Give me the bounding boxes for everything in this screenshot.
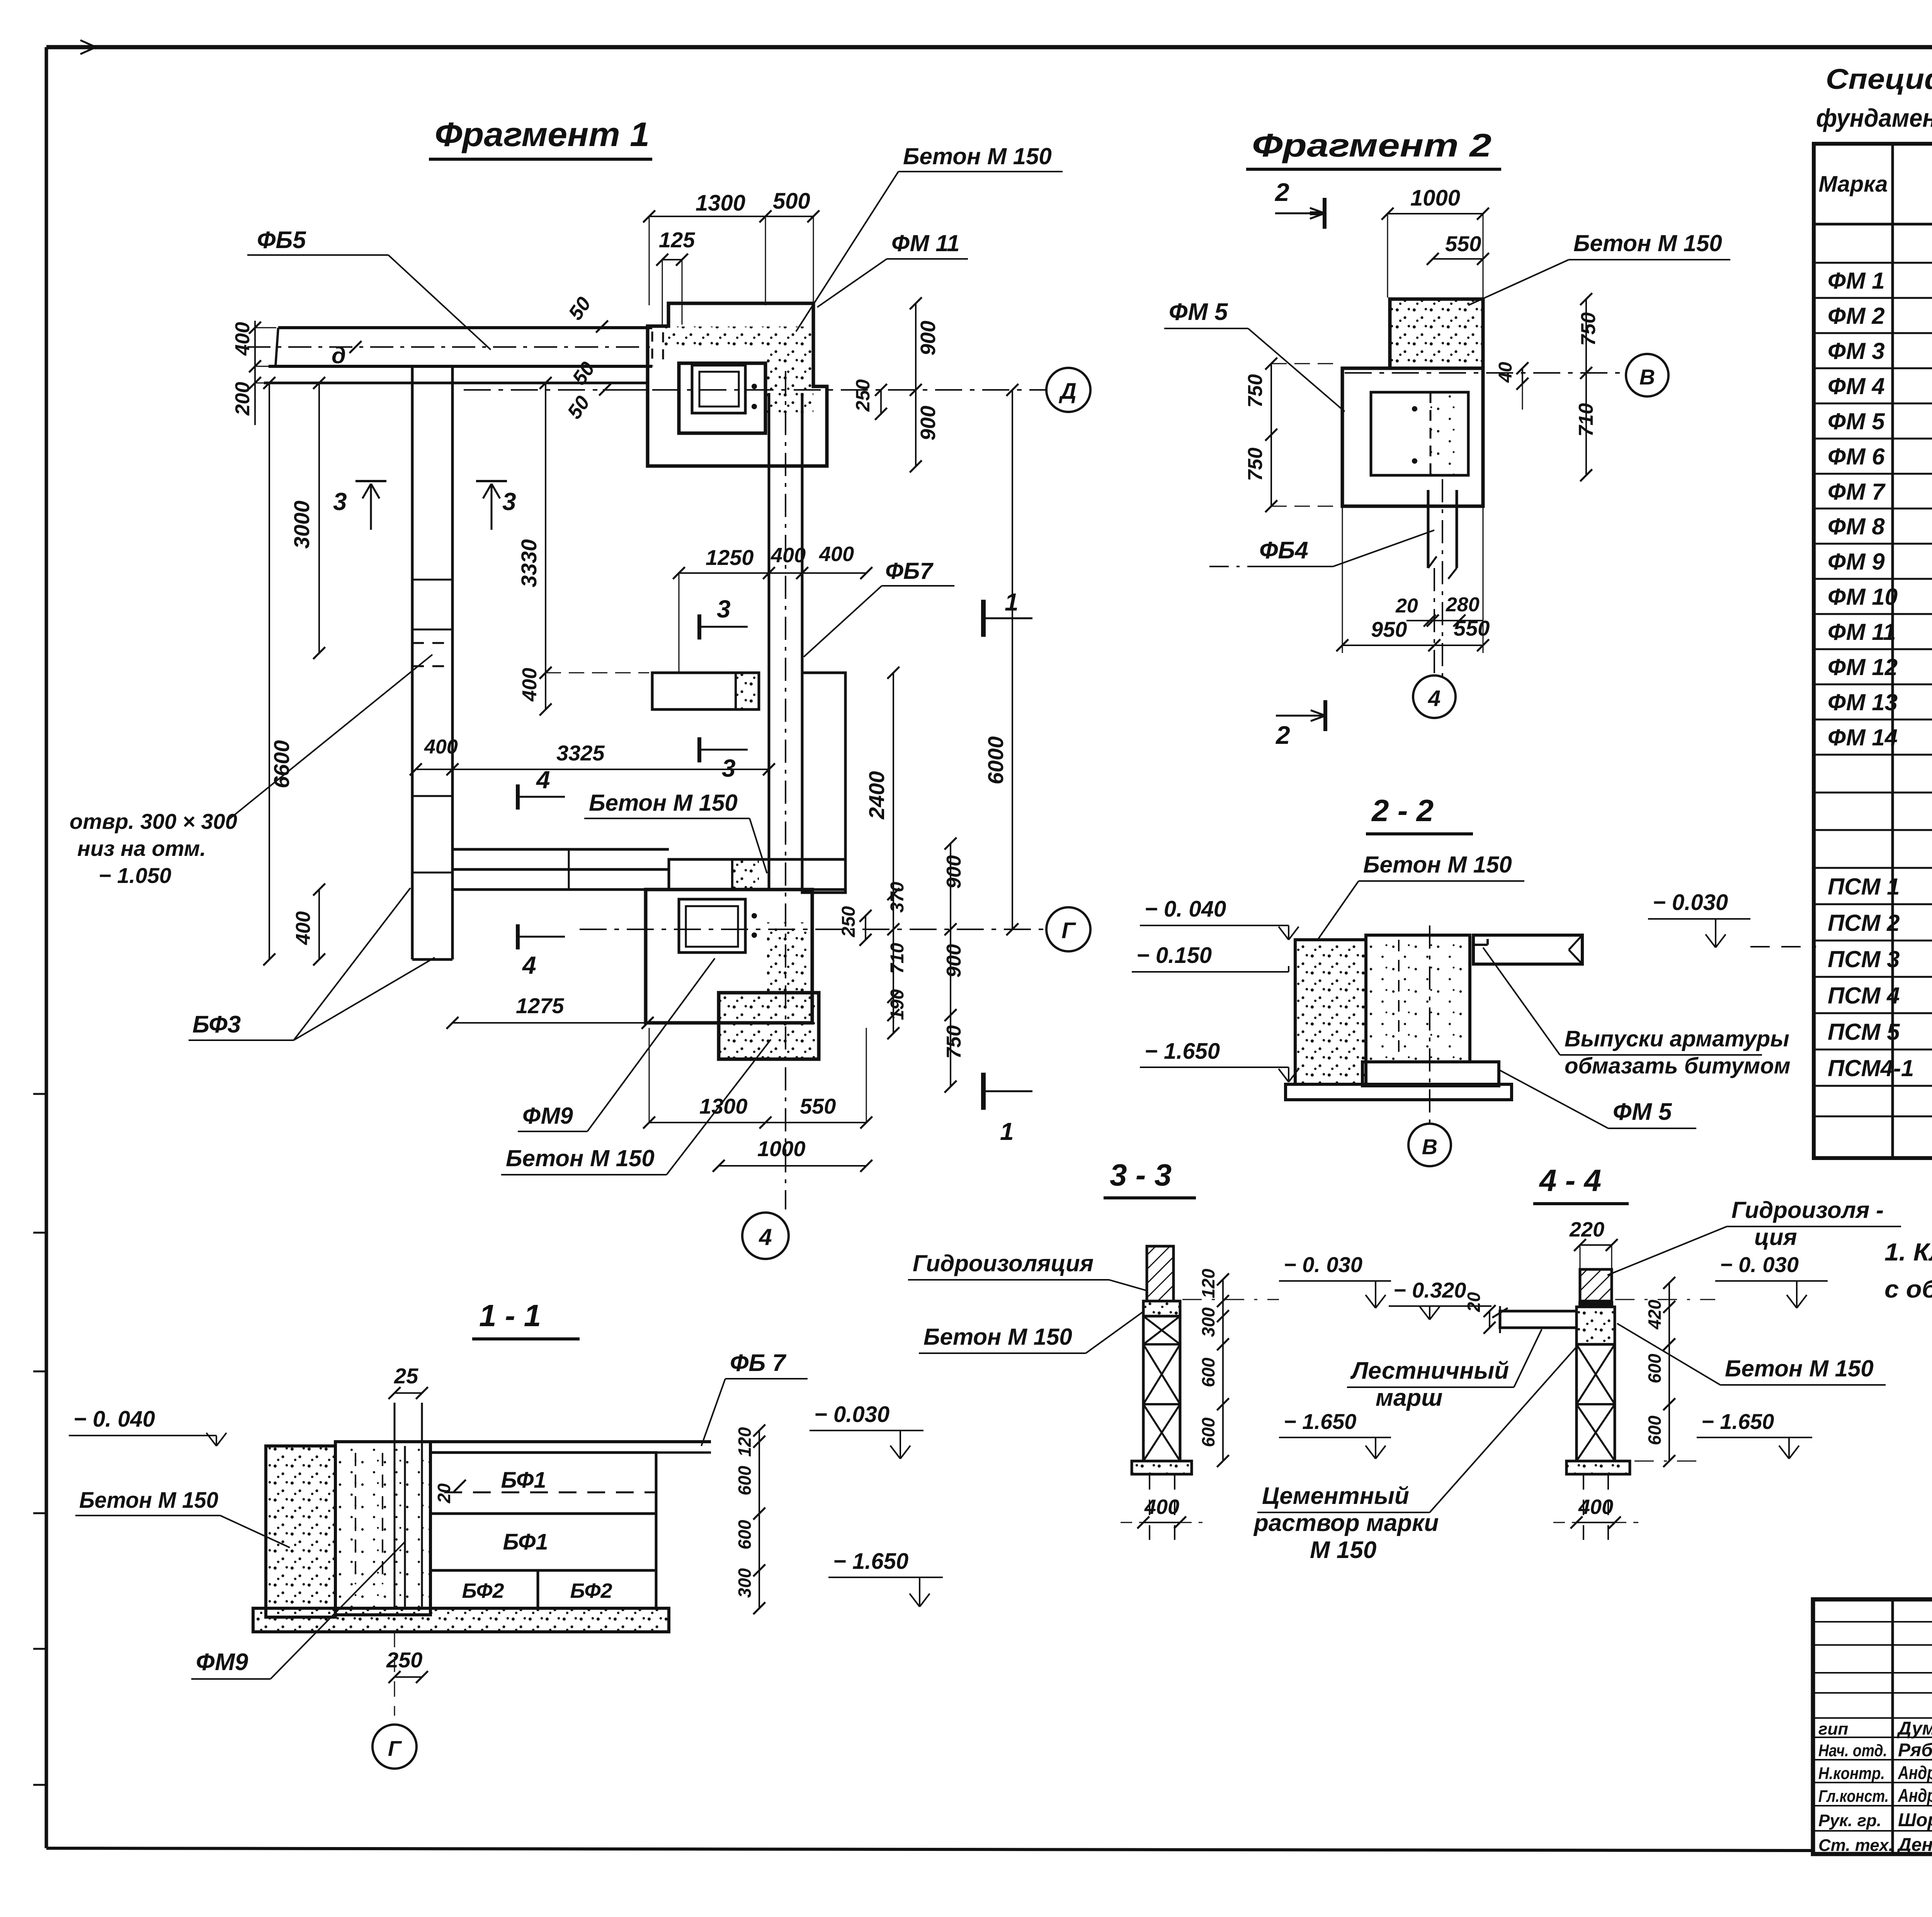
svg-text:220: 220 [1569, 1218, 1604, 1241]
3-3 dashed continuation [1150, 1474, 1175, 1540]
dim 1300/500 top [643, 189, 819, 305]
svg-text:900: 900 [943, 944, 965, 978]
label BF3 with leaders [189, 888, 435, 1040]
inner cell FM5 [1371, 392, 1468, 475]
label FB4 [1209, 530, 1434, 566]
spec table rows [1828, 228, 1932, 1151]
4-4 mortar block (dots) [1577, 1307, 1615, 1344]
svg-text:3: 3 [722, 754, 736, 782]
svg-text:низ на отм.: низ на отм. [77, 836, 206, 861]
dim 400 column bottom [292, 883, 325, 965]
svg-text:Выпуски арматуры: Выпуски арматуры [1565, 1026, 1789, 1051]
title section 2-2 [1366, 793, 1473, 834]
svg-text:ПСМ 3: ПСМ 3 [1828, 946, 1900, 972]
level -1.650 (2-2) [1140, 1039, 1299, 1082]
dim 1000 bottom [713, 1136, 872, 1172]
svg-text:400: 400 [424, 736, 458, 758]
svg-text:− 0. 040: − 0. 040 [73, 1407, 155, 1432]
svg-text:3: 3 [717, 595, 731, 623]
svg-text:Денисова: Денисова [1896, 1835, 1932, 1855]
svg-text:Г: Г [388, 1736, 402, 1761]
svg-text:1000: 1000 [757, 1136, 806, 1161]
label Beton M150 (3-3) [1086, 1311, 1145, 1353]
svg-text:300: 300 [735, 1568, 755, 1598]
right dims 750/40/710 (fragment 2) [1495, 293, 1600, 481]
svg-text:БФ1: БФ1 [501, 1468, 546, 1493]
level -1.650 (3-3) [1279, 1409, 1391, 1459]
axis circle 4 (fragment 2) [1413, 568, 1456, 718]
svg-text:1300: 1300 [699, 1094, 748, 1118]
svg-text:600: 600 [1198, 1357, 1218, 1387]
band toward FB7 with concrete cell [669, 859, 845, 890]
svg-text:1300: 1300 [696, 191, 745, 216]
section mark 2 top [1274, 178, 1325, 229]
3-3 mortar band (dots) [1143, 1301, 1180, 1316]
foundation FM5 outline [1342, 299, 1483, 506]
1-1 BF1 lower block [430, 1514, 656, 1570]
1-1 BF2 blocks [430, 1570, 656, 1608]
dim 1275 [446, 993, 653, 1029]
axis circle 4 (fragment 1) [742, 1213, 789, 1259]
svg-text:фундаментов, фундаментных бало: фундаментов, фундаментных балок, подпорн… [1816, 104, 1932, 132]
svg-text:3 - 3: 3 - 3 [1110, 1158, 1172, 1192]
label FM11 [817, 230, 968, 307]
svg-text:ФМ 10: ФМ 10 [1828, 584, 1898, 610]
dims 1300/550 bottom [643, 1028, 872, 1129]
svg-text:ФМ 8: ФМ 8 [1828, 514, 1885, 539]
level -0.030 (3-3) [1182, 1252, 1391, 1308]
svg-text:Фрагмент 1: Фрагмент 1 [435, 115, 650, 153]
svg-text:обмазать битумом: обмазать битумом [1565, 1053, 1791, 1078]
svg-text:Ст. тех.: Ст. тех. [1818, 1836, 1893, 1855]
1-1 top slab lines [335, 1442, 711, 1453]
svg-text:2: 2 [1275, 721, 1290, 749]
svg-text:марш: марш [1376, 1385, 1442, 1411]
svg-text:550: 550 [1454, 616, 1490, 640]
label FB7 [804, 558, 954, 657]
svg-text:400: 400 [770, 544, 806, 567]
svg-text:3325: 3325 [556, 741, 605, 765]
axis D [464, 368, 1090, 412]
svg-text:Гидроизоляция: Гидроизоляция [913, 1250, 1094, 1276]
svg-text:В: В [1639, 365, 1655, 389]
svg-text:д: д [332, 342, 346, 368]
section 2-2 base slab [1286, 1084, 1512, 1100]
svg-text:Г: Г [1061, 918, 1076, 943]
svg-text:280: 280 [1446, 594, 1480, 616]
beam FB4 below [1428, 479, 1457, 680]
axis G circle (1-1) [372, 1725, 417, 1769]
svg-text:БФ3: БФ3 [192, 1011, 241, 1038]
section 2-2 left concrete column [1295, 940, 1366, 1084]
svg-text:250: 250 [838, 906, 859, 937]
4-4 dashed continuation [1583, 1474, 1608, 1540]
level -1.650 (4-4) [1634, 1409, 1812, 1461]
svg-text:Рябуха: Рябуха [1898, 1740, 1932, 1761]
svg-text:750: 750 [1244, 374, 1267, 408]
axis B line + circle (fragment 2) [1345, 354, 1668, 396]
section 2-2 beam right [1473, 935, 1582, 964]
title section 4-4 [1533, 1163, 1629, 1204]
svg-text:600: 600 [1645, 1415, 1665, 1445]
svg-text:ФМ9: ФМ9 [196, 1649, 248, 1675]
4-4 block column with X bracing [1577, 1344, 1615, 1461]
svg-text:ФМ 13: ФМ 13 [1828, 689, 1898, 715]
svg-text:550: 550 [1445, 231, 1481, 256]
axis B circle (2-2) [1408, 925, 1451, 1166]
dashed beam end at foundation [652, 332, 663, 366]
svg-text:400: 400 [1144, 1495, 1179, 1519]
level -0.150 [1132, 943, 1289, 972]
middle pad element [652, 673, 759, 709]
4-4 base pad [1566, 1461, 1630, 1474]
svg-text:ФМ 9: ФМ 9 [1828, 549, 1885, 575]
section 2-2 pedestal [1362, 1062, 1499, 1086]
svg-text:ФБ 7: ФБ 7 [730, 1350, 787, 1376]
personnel rows [1818, 1718, 1932, 1855]
dim 20 (1-1) [434, 1480, 466, 1504]
svg-text:120: 120 [735, 1427, 755, 1457]
label FB7 (1-1) [701, 1350, 808, 1446]
svg-text:4: 4 [1428, 686, 1440, 711]
label FM5 (2-2) [1500, 1070, 1696, 1128]
1-1 second concrete block [335, 1442, 430, 1615]
label vypuski armatury [1483, 947, 1791, 1078]
label Beton M150 (1-1 top right) [919, 1324, 1086, 1353]
rebar hooks [1472, 939, 1488, 945]
svg-text:ФМ 6: ФМ 6 [1828, 444, 1885, 469]
svg-text:ция: ция [1754, 1224, 1797, 1250]
svg-text:750: 750 [1577, 312, 1600, 346]
svg-text:125: 125 [659, 228, 695, 252]
label Lestnichnyj marsh [1347, 1329, 1542, 1411]
3-3 hydro block (hatch) [1147, 1246, 1173, 1301]
dim 1000 (fragment 2) [1381, 185, 1489, 298]
title Fragment 1 [429, 115, 652, 159]
axis G [580, 907, 1090, 951]
svg-text:4 - 4: 4 - 4 [1539, 1163, 1601, 1197]
dims 50 near beam end [563, 293, 649, 423]
svg-text:− 0.030: − 0.030 [1653, 890, 1728, 915]
svg-text:600: 600 [1645, 1354, 1665, 1383]
section marks 3 up [333, 481, 386, 530]
svg-text:Лестничный: Лестничный [1350, 1357, 1509, 1384]
level -0.040 [1140, 896, 1299, 940]
svg-text:900: 900 [917, 406, 940, 441]
concrete fill FM11 (dots) [663, 327, 813, 413]
svg-text:400: 400 [1578, 1495, 1613, 1519]
left column (block wall) [412, 368, 452, 959]
level -1.650 (1-1) [828, 1549, 943, 1607]
svg-text:ФМ 5: ФМ 5 [1828, 408, 1885, 434]
svg-text:950: 950 [1371, 617, 1407, 641]
dim 3325 and 400 [410, 736, 775, 776]
svg-text:Бетон М 150: Бетон М 150 [1725, 1356, 1874, 1381]
dim 20 (4-4) [1464, 1292, 1496, 1334]
section mark 2 bottom [1275, 700, 1325, 749]
svg-text:Гл.конст.: Гл.конст. [1818, 1787, 1889, 1806]
svg-text:250: 250 [386, 1648, 422, 1672]
svg-text:ФМ 11: ФМ 11 [1828, 619, 1896, 645]
1-1 BF1 upper block [430, 1453, 656, 1514]
svg-text:М 150: М 150 [1310, 1537, 1376, 1563]
svg-text:20: 20 [1395, 595, 1418, 617]
svg-text:ФБ7: ФБ7 [885, 558, 934, 584]
svg-text:Бетон М 150: Бетон М 150 [1573, 230, 1722, 256]
svg-text:ПСМ4-1: ПСМ4-1 [1828, 1055, 1914, 1081]
wall line under beam [264, 382, 649, 384]
svg-text:190: 190 [887, 989, 908, 1020]
svg-text:20: 20 [434, 1483, 454, 1504]
svg-text:− 0.030: − 0.030 [814, 1402, 889, 1427]
left dims 750/750 (fragment 2) [1244, 357, 1341, 512]
svg-text:− 1.650: − 1.650 [1145, 1039, 1220, 1064]
svg-text:ФМ 5: ФМ 5 [1613, 1099, 1672, 1125]
svg-text:400: 400 [292, 911, 315, 945]
dim 220 (4-4) [1569, 1218, 1618, 1269]
svg-text:ФМ 3: ФМ 3 [1828, 338, 1885, 364]
dim 3330 [517, 377, 552, 679]
svg-text:Д: Д [1058, 379, 1077, 404]
dim 400/200 left of beam [231, 321, 276, 425]
svg-text:Бетон М 150: Бетон М 150 [1363, 852, 1512, 878]
svg-text:550: 550 [800, 1094, 836, 1118]
svg-text:с обязательной перевязкой шв: с обязательной перевязкой швов [1884, 1275, 1932, 1303]
4-4 hydro block (hatch) [1578, 1269, 1613, 1304]
dims 900/900/250 at axis D [852, 297, 940, 472]
column cell FM11 [679, 363, 765, 433]
spec table header texts [1818, 160, 1932, 209]
svg-text:Андриевская: Андриевская [1898, 1763, 1932, 1783]
svg-text:ФМ 2: ФМ 2 [1828, 303, 1885, 329]
dims 950/550 (fragment 2) [1336, 506, 1490, 653]
svg-text:БФ2: БФ2 [570, 1579, 612, 1602]
svg-text:370: 370 [887, 882, 908, 913]
svg-text:Цементный: Цементный [1262, 1483, 1409, 1509]
label Beton M150 (1-1 left) [75, 1488, 290, 1548]
svg-text:500: 500 [773, 189, 810, 214]
label Beton M150 (2-2) [1318, 852, 1524, 940]
dim 125 [656, 228, 695, 325]
svg-text:Шор: Шор [1898, 1810, 1932, 1830]
frame fold ticks left border [33, 1094, 47, 1785]
svg-text:400: 400 [231, 322, 254, 356]
svg-text:− 0. 040: − 0. 040 [1145, 896, 1226, 922]
svg-text:120: 120 [1198, 1269, 1218, 1298]
label Beton M150 mid [584, 790, 767, 873]
svg-text:1: 1 [1005, 588, 1019, 616]
spec table grid [1814, 144, 1932, 1158]
svg-text:200: 200 [231, 382, 254, 416]
dim 400 (3-3) [1121, 1495, 1202, 1529]
1-1 joint vertical lines [395, 1403, 422, 1608]
svg-text:Думан: Думан [1896, 1718, 1932, 1739]
svg-text:ФБ5: ФБ5 [257, 227, 306, 253]
svg-text:− 1.650: − 1.650 [833, 1549, 908, 1574]
svg-text:Бетон М 150: Бетон М 150 [589, 790, 738, 816]
concrete block (fragment 2, dots) [1390, 299, 1483, 368]
svg-text:1: 1 [1000, 1118, 1014, 1145]
dim 6000 [983, 384, 1019, 935]
svg-text:6000: 6000 [983, 736, 1008, 784]
svg-text:ФМ 12: ФМ 12 [1828, 654, 1898, 680]
svg-text:1275: 1275 [516, 993, 564, 1018]
svg-text:710: 710 [887, 943, 908, 974]
svg-text:гип: гип [1818, 1720, 1848, 1738]
svg-text:− 0.150: − 0.150 [1136, 943, 1212, 968]
foundation FM9 outline (bottom) [646, 890, 812, 1023]
svg-text:− 0. 030: − 0. 030 [1284, 1252, 1362, 1277]
svg-text:400: 400 [519, 668, 541, 702]
svg-text:Бетон М 150: Бетон М 150 [923, 1324, 1072, 1350]
svg-text:Нач. отд.: Нач. отд. [1818, 1741, 1887, 1760]
title Fragment 2 [1246, 127, 1501, 169]
svg-text:Рук. гр.: Рук. гр. [1818, 1811, 1881, 1830]
svg-text:400: 400 [819, 543, 854, 566]
svg-text:900: 900 [943, 855, 965, 889]
level -0.030 (2-2 right) [1648, 890, 1816, 947]
dim 400 (4-4) [1553, 1495, 1638, 1529]
section marks 3 mid [699, 595, 748, 640]
section marks 4 [518, 766, 565, 810]
svg-text:− 0. 030: − 0. 030 [1720, 1252, 1799, 1277]
label Gidroizolya-ciya (4-4) [1607, 1197, 1901, 1275]
axis label d [332, 341, 362, 368]
svg-text:1 - 1: 1 - 1 [479, 1298, 541, 1333]
svg-text:3: 3 [333, 488, 347, 515]
svg-text:ПСМ 4: ПСМ 4 [1828, 983, 1900, 1009]
beam FB5 horizontal [247, 328, 657, 366]
label cement mortar [1253, 1345, 1578, 1563]
svg-text:Марка: Марка [1818, 172, 1888, 197]
svg-text:600: 600 [1198, 1417, 1218, 1447]
frame arrow mark top-left [58, 40, 96, 54]
svg-text:− 0.320: − 0.320 [1393, 1278, 1466, 1302]
dim 550 (fragment 2) [1427, 231, 1489, 265]
3-3 base pad [1132, 1461, 1192, 1474]
svg-text:4: 4 [522, 951, 536, 979]
svg-text:2: 2 [1274, 178, 1289, 206]
svg-text:710: 710 [1575, 403, 1597, 437]
svg-text:Фрагмент 2: Фрагмент 2 [1252, 127, 1492, 163]
section mark 1 top [983, 588, 1032, 637]
label FB5 with leader [247, 227, 491, 350]
svg-text:250: 250 [852, 379, 874, 412]
svg-text:25: 25 [394, 1364, 418, 1388]
svg-text:750: 750 [943, 1025, 965, 1059]
dim 6600 [263, 377, 294, 965]
label FM9 [518, 958, 715, 1131]
svg-text:3000: 3000 [289, 500, 314, 549]
dims lower right stack [838, 837, 965, 1092]
label Beton M150 top [796, 143, 1063, 332]
1-1 left concrete block [266, 1446, 335, 1617]
right dim stack (4-4) [1645, 1277, 1675, 1467]
svg-text:750: 750 [1244, 447, 1267, 481]
stair flight beam [1492, 1306, 1577, 1333]
svg-text:ПСМ 1: ПСМ 1 [1828, 874, 1900, 900]
svg-text:В: В [1422, 1135, 1437, 1159]
label Gidroizolyaciya (3-3) [908, 1250, 1147, 1291]
label Beton M150 bottom [501, 1039, 771, 1175]
label FM5 [1164, 299, 1345, 412]
beam FB7 vertical [769, 371, 802, 1209]
3-3 block column with X bracing [1143, 1316, 1180, 1461]
1-1 base slab (dotted) [253, 1608, 669, 1632]
level -0.030 (4-4) [1615, 1252, 1828, 1308]
svg-text:600: 600 [735, 1520, 755, 1550]
svg-text:2 - 2: 2 - 2 [1371, 793, 1434, 828]
svg-text:Бетон М 150: Бетон М 150 [903, 143, 1052, 169]
right dim stack (1-1) [735, 1424, 765, 1614]
svg-text:20: 20 [1464, 1292, 1484, 1312]
dim 25 (1-1) [388, 1364, 428, 1399]
svg-text:Бетон М 150: Бетон М 150 [79, 1488, 218, 1513]
lower-left beams band [452, 849, 669, 890]
svg-text:БФ2: БФ2 [462, 1579, 504, 1602]
svg-text:ПСМ 2: ПСМ 2 [1828, 910, 1900, 936]
svg-text:раствор марки: раствор марки [1253, 1510, 1439, 1536]
label FM9 (1-1) [191, 1542, 405, 1679]
svg-text:отвр. 300 × 300: отвр. 300 × 300 [70, 809, 237, 833]
foundation FM11 outline (top) [648, 303, 827, 466]
svg-text:Бетон М 150: Бетон М 150 [506, 1145, 655, 1171]
svg-text:6600: 6600 [269, 740, 294, 788]
svg-text:− 1.050: − 1.050 [99, 863, 171, 888]
svg-text:600: 600 [735, 1466, 755, 1495]
dim 400 mid vertical [519, 667, 649, 715]
svg-text:ФМ 7: ФМ 7 [1828, 479, 1886, 505]
svg-text:ФМ 1: ФМ 1 [1828, 268, 1885, 294]
section 2-2 right concrete column [1366, 935, 1470, 1062]
svg-text:ФМ 11: ФМ 11 [891, 230, 960, 256]
section mark 1 bottom [983, 1073, 1032, 1145]
svg-text:4: 4 [759, 1224, 772, 1250]
dim 250 (1-1) [386, 1632, 428, 1716]
svg-text:300: 300 [1198, 1307, 1218, 1337]
svg-text:420: 420 [1645, 1300, 1665, 1330]
svg-text:3330: 3330 [517, 539, 541, 587]
dim 1250 / 400 400 [673, 543, 872, 673]
svg-text:1. Кладку блоков выполнить: 1. Кладку блоков выполнить на растворе м… [1884, 1238, 1932, 1266]
hole note otv 300x300 [70, 655, 432, 888]
title section 1-1 [472, 1298, 580, 1339]
svg-text:900: 900 [917, 321, 940, 356]
svg-text:Гидроизоля -: Гидроизоля - [1731, 1197, 1884, 1223]
svg-text:ФМ 14: ФМ 14 [1828, 725, 1898, 750]
svg-text:Андриевская: Андриевская [1898, 1786, 1932, 1806]
label Beton M150 (4-4) [1617, 1323, 1886, 1385]
label Beton M150 (fragment 2) [1468, 230, 1730, 305]
level -0.320 [1389, 1278, 1492, 1320]
title section 3-3 [1104, 1158, 1196, 1198]
dim 2400 [864, 667, 900, 900]
dim 3000 [289, 377, 325, 659]
svg-text:ФМ 4: ФМ 4 [1828, 373, 1885, 399]
retaining wall right of FB7 [802, 673, 845, 893]
svg-text:− 1.650: − 1.650 [1701, 1409, 1774, 1434]
svg-text:ФБ4: ФБ4 [1259, 537, 1308, 564]
svg-text:БФ1: БФ1 [503, 1529, 548, 1555]
right dim stack (3-3) [1198, 1269, 1229, 1467]
svg-text:3: 3 [502, 488, 516, 515]
title block grid [1813, 1599, 1932, 1854]
dims 20/280 (fragment 2) [1395, 594, 1483, 627]
svg-text:Спецификация элементов к схе: Спецификация элементов к схеме расположе… [1826, 63, 1932, 95]
svg-text:1250: 1250 [706, 545, 754, 570]
svg-text:ПСМ 5: ПСМ 5 [1828, 1019, 1900, 1045]
svg-text:2400: 2400 [864, 771, 889, 820]
